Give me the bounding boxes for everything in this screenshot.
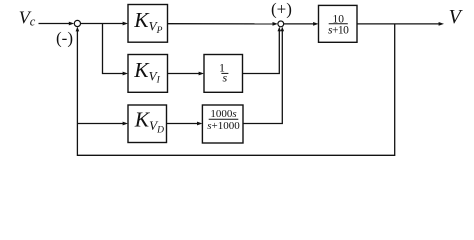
wire KVP to summing junction S2 — [168, 22, 278, 26]
svg-text:s+10: s+10 — [328, 24, 349, 36]
block KVD (derivative gain) — [128, 105, 167, 143]
wire S1 to block KVP — [81, 22, 129, 26]
wire integrator up into S2 — [243, 27, 282, 74]
wire KVD to derivative filter block — [167, 122, 203, 126]
svg-text:(+): (+) — [271, 0, 292, 18]
summing junction S2 — [278, 21, 284, 27]
wire plant to output V — [357, 22, 444, 26]
label V (output) — [449, 6, 464, 28]
wire feedback tap to KVD — [77, 122, 128, 126]
block KVI (integral gain) — [128, 55, 168, 93]
svg-text:s: s — [222, 71, 227, 85]
svg-text:V: V — [449, 6, 464, 28]
block derivative filter 1000s/(s+1000) — [202, 105, 243, 143]
svg-text:Vc: Vc — [19, 8, 36, 29]
label (+) plus sign at S2 — [271, 0, 292, 18]
wire S2 to plant block — [284, 22, 319, 26]
wire branch node down to KVI row — [103, 24, 129, 76]
block KVP (proportional gain) — [128, 5, 168, 43]
wire derivative filter up into S2 — [243, 27, 284, 124]
summing junction S1 — [74, 20, 80, 26]
block plant 10/(s+10) — [319, 5, 358, 42]
wire feedback from output node down, along bottom, up into S1 — [76, 24, 395, 155]
svg-text:1000s: 1000s — [210, 108, 236, 120]
label Vc (command input) — [19, 8, 36, 29]
label (-) minus sign at S1 — [56, 28, 73, 47]
svg-text:s+1000: s+1000 — [207, 120, 240, 132]
wire KVI to integrator block — [168, 72, 205, 76]
wire Vc to summing junction S1 — [39, 22, 75, 26]
svg-text:(-): (-) — [56, 28, 73, 47]
block integrator 1/s — [204, 55, 243, 93]
